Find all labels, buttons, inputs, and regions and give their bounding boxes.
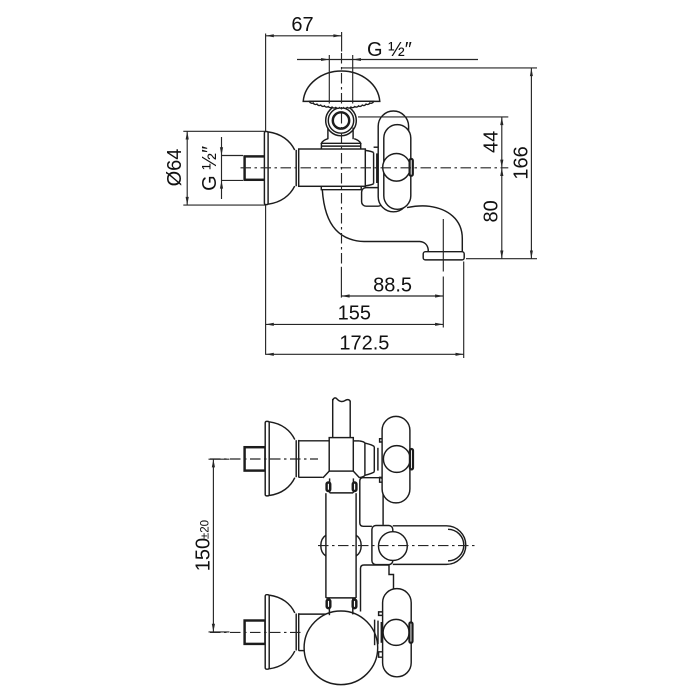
lower handle rim notches (379, 612, 383, 657)
lower escutcheon flange plate (265, 595, 269, 670)
dim 44/80 line (501, 117, 503, 259)
lower escutcheon bell (269, 595, 295, 669)
central valve block (329, 438, 353, 472)
main body tube (299, 149, 366, 186)
svg-text:150: 150 (193, 538, 215, 571)
bonnet ring 2 (376, 153, 378, 183)
svg-text:Ø64: Ø64 (164, 149, 186, 187)
dim 150 line (212, 459, 214, 632)
diverter housing (top view) (360, 478, 383, 527)
dim 166/80 bottom reference (466, 258, 537, 260)
dim 67 line (266, 35, 342, 37)
G1/2 left bottom reference (222, 179, 244, 181)
spout end outer arc (447, 526, 466, 565)
dim 172.5 right extension (463, 262, 465, 359)
lower housing top edge (364, 564, 389, 566)
spout tube top line (393, 525, 447, 527)
svg-text:80: 80 (480, 200, 502, 222)
pipe base collar (321, 143, 360, 149)
upper handle capsule (382, 416, 410, 503)
bonnet bottom shoulder (374, 187, 379, 189)
column right bulge (356, 535, 361, 556)
dim 150 top reference (209, 458, 230, 460)
lower handle screw cap (bold) (409, 622, 412, 642)
spout lower-left profile (322, 190, 428, 252)
lower tube top line (299, 613, 327, 615)
serrated skirt under dome (309, 101, 373, 108)
dim O64 bottom reference (183, 204, 265, 206)
dim O64 line (186, 131, 188, 205)
lower tube bottom line (299, 650, 313, 652)
lower joint tube left (328, 598, 330, 615)
lower o-ring right (bold) (353, 600, 357, 609)
shower diverter swivel ring inner (bold) (333, 112, 349, 128)
upper connection centerline (210, 458, 318, 460)
bonnet wide ring (364, 443, 366, 475)
lower connection centerline (210, 631, 303, 633)
escutcheon bell profile (268, 132, 295, 204)
dim 44 top reference (358, 116, 508, 118)
spout axis line (442, 219, 444, 272)
upper o-ring left (bold) (327, 483, 331, 492)
upper joint tube right (352, 478, 354, 493)
svg-text:44: 44 (480, 131, 502, 153)
dim 166 line (530, 68, 532, 259)
column top joint line (330, 492, 354, 494)
spout centerline (top view) (318, 545, 478, 547)
upper o-ring right (bold) (353, 483, 357, 492)
dome cap of diverter (303, 71, 380, 101)
G1/2 left dim line (221, 137, 223, 199)
handle hub (383, 154, 411, 182)
dim 166 top reference (342, 67, 537, 69)
wall extension line lower (265, 205, 267, 355)
bonnet cone curves (365, 150, 373, 186)
spout upper-right profile (407, 206, 462, 252)
main horizontal centerline (241, 167, 509, 169)
block bevels (323, 471, 360, 478)
upper body tube top line (299, 440, 330, 442)
G1/2 top right extension (352, 55, 354, 104)
upper joint tube left (329, 478, 331, 493)
lower handle hub (383, 619, 409, 645)
bonnet top shoulder (374, 146, 379, 148)
G1/2 top dim line (297, 59, 478, 61)
escutcheon flange plate at wall (264, 132, 268, 205)
svg-text:88.5: 88.5 (373, 274, 412, 296)
bonnet top shoulder (353, 440, 359, 442)
shower pipe left edge (327, 128, 329, 140)
shower pipe right edge (top view) (349, 401, 351, 438)
svg-text:G ½″: G ½″ (367, 39, 412, 61)
shower pipe break line (333, 398, 351, 402)
dim 172.5 line (266, 353, 464, 355)
spout axis dim extension (442, 277, 444, 328)
upper escutcheon flange plate (265, 421, 269, 496)
spout base block (top view) (372, 526, 393, 565)
dim 88.5 left extension (340, 267, 342, 298)
svg-text:G ½″: G ½″ (199, 146, 221, 191)
bonnet fillets (359, 441, 365, 478)
diverter housing under body (362, 188, 383, 207)
G1/2 top left extension (328, 55, 330, 104)
upper escutcheon bell (269, 422, 295, 496)
svg-text:172.5: 172.5 (339, 333, 389, 355)
upper body tube bottom line (299, 476, 323, 478)
shower pipe right edge (352, 128, 354, 140)
spout tube bottom line (393, 563, 447, 565)
spout outlet flange (423, 252, 464, 260)
bonnet collar (377, 448, 379, 471)
upper handle hub (383, 446, 410, 473)
upper escutcheon neck ring (295, 440, 297, 477)
handle back arm capsule (378, 111, 408, 212)
svg-text:155: 155 (338, 303, 371, 325)
svg-text:±20: ±20 (200, 520, 212, 539)
bonnet ring 1 (373, 153, 375, 184)
lower housing left edge (361, 565, 365, 612)
spout hub circle (top view) (379, 532, 408, 561)
shower diverter swivel ring middle (328, 108, 353, 133)
shower diverter swivel ring outer (326, 105, 357, 136)
column left bulge (321, 535, 326, 556)
spout end inner arc (448, 529, 464, 561)
wall connection thread stub G1/2 (bold) (245, 156, 266, 179)
dim 67 right extension (341, 32, 343, 52)
dim 150 bottom reference (209, 631, 230, 633)
column right edge (355, 493, 357, 598)
lower bonnet ring b (377, 621, 379, 645)
column left edge (325, 493, 327, 598)
dim 88.5 line (341, 295, 443, 297)
shower pipe left edge (top view) (332, 399, 334, 438)
upper thread stub G1/2 (bold) (245, 447, 266, 470)
escutcheon neck ring (295, 150, 297, 186)
vertical axis centerline (341, 53, 343, 265)
upper handle rim notches (380, 439, 383, 483)
lower housing step (389, 565, 394, 591)
lower o-ring left (bold) (327, 600, 331, 609)
dome cap seen from top (304, 611, 378, 685)
wall extension line upper (265, 34, 267, 132)
lower joint line (326, 597, 356, 599)
lower bonnet collar (380, 622, 382, 643)
dim 155 line (266, 323, 444, 325)
svg-text:67: 67 (291, 14, 313, 36)
bonnet ring a (373, 447, 375, 472)
handle screw cap (bold) (410, 159, 413, 176)
lower thread stub G1/2 (bold) (245, 621, 266, 644)
trumpet flare of pipe base (321, 139, 360, 144)
handle front arm capsule (384, 125, 411, 210)
lower handle capsule (383, 589, 412, 677)
under-body ledge (321, 186, 361, 189)
lower escutcheon neck ring (295, 614, 297, 651)
lower bonnet ring a (374, 620, 376, 646)
lower joint tube right (352, 598, 354, 615)
dim O64 top reference (183, 130, 265, 132)
bonnet cone (365, 443, 374, 475)
svg-text:166: 166 (510, 146, 532, 179)
upper handle screw cap (bold) (410, 449, 413, 469)
G1/2 left top reference (222, 155, 244, 157)
